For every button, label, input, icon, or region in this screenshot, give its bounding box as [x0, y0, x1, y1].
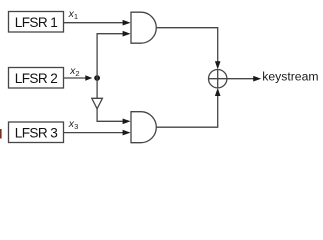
arrow into XOR bottom [215, 88, 221, 96]
arrow into XOR top [215, 61, 221, 69]
wire junction down to inverter [96, 78, 98, 98]
svg-text:2: 2 [75, 69, 79, 78]
wire LFSR1 to AND1 [64, 22, 124, 24]
arrow into AND2 input 2 [123, 130, 131, 136]
svg-text:LFSR 3: LFSR 3 [15, 126, 58, 141]
AND gate bottom (U2) [131, 112, 156, 143]
svg-text:1: 1 [74, 12, 78, 21]
svg-text:LFSR 1: LFSR 1 [15, 15, 58, 30]
inverter (down-pointing triangle) [92, 98, 103, 109]
arrow into junction [85, 75, 92, 80]
svg-text:3: 3 [74, 122, 78, 131]
wire AND1 output to XOR top [156, 28, 217, 62]
svg-text:keystream: keystream [262, 70, 318, 84]
junction node dot [94, 75, 100, 81]
label x3 [68, 118, 79, 131]
XOR gate (circle-plus) [209, 70, 227, 88]
label x1 [68, 8, 79, 21]
wire XOR output [227, 78, 254, 80]
LFSR 2 box [9, 68, 64, 89]
arrow into AND1 input 2 [123, 31, 131, 37]
wire LFSR3 to AND2 input 2 [64, 132, 124, 134]
LFSR 1 box [9, 12, 64, 33]
AND gate top (U1) [131, 12, 156, 43]
clipped mark at left edge [0, 129, 2, 139]
arrow into AND2 input 1 [123, 119, 131, 125]
wire junction up and right to AND1 input 2 [97, 34, 123, 78]
arrow into AND1 input 1 [123, 20, 131, 26]
wire AND2 output to XOR bottom [156, 96, 217, 128]
LFSR 3 box [9, 122, 64, 143]
arrow to keystream [253, 76, 261, 82]
label x2 [69, 65, 80, 78]
wire LFSR2 to junction [64, 77, 87, 79]
wire inverter to AND2 input 1 [97, 109, 123, 122]
svg-text:LFSR 2: LFSR 2 [15, 71, 58, 86]
